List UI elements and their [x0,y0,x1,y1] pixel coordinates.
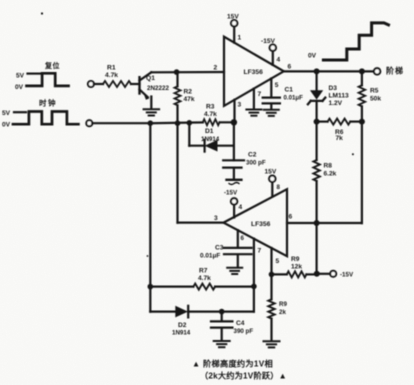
svg-text:R5: R5 [370,88,379,95]
svg-text:R8: R8 [324,163,333,170]
svg-text:4.7k: 4.7k [198,275,211,282]
svg-text:12k: 12k [291,264,302,271]
svg-text:4: 4 [239,204,243,211]
svg-text:2: 2 [214,65,218,72]
svg-text:5: 5 [275,82,279,89]
svg-text:LF356: LF356 [244,69,264,76]
svg-text:0.01μF: 0.01μF [200,253,220,260]
svg-text:4.7k: 4.7k [105,72,118,79]
svg-text:15V: 15V [265,169,277,176]
svg-text:3: 3 [214,215,218,222]
svg-text:-15V: -15V [224,190,238,197]
svg-text:0V: 0V [2,122,11,129]
svg-text:7: 7 [258,248,262,255]
svg-text:4.7k: 4.7k [204,111,217,118]
svg-text:C3: C3 [215,245,224,252]
svg-text:（2k大约为1V阶跃）▲: （2k大约为1V阶跃）▲ [200,371,287,381]
svg-text:R1: R1 [107,65,116,72]
svg-text:1: 1 [238,35,242,42]
svg-text:8: 8 [277,184,281,191]
svg-text:7k: 7k [336,135,344,142]
svg-text:R2: R2 [184,89,193,96]
svg-text:-15V: -15V [261,38,276,45]
svg-text:0V: 0V [308,53,317,60]
svg-text:D1: D1 [205,128,214,135]
svg-text:50k: 50k [370,96,381,103]
svg-text:1.2V: 1.2V [329,100,343,107]
svg-text:5V: 5V [16,73,25,80]
svg-text:C1: C1 [285,87,294,94]
svg-text:C2: C2 [248,152,257,159]
svg-text:2N2222: 2N2222 [147,85,170,92]
svg-text:4: 4 [277,57,281,64]
svg-text:6: 6 [288,64,292,71]
svg-text:1N914: 1N914 [172,330,191,337]
svg-text:C4: C4 [236,320,245,327]
svg-text:2k: 2k [279,309,286,316]
svg-text:0V: 0V [15,84,24,91]
svg-text:6: 6 [289,214,293,221]
svg-text:Q1: Q1 [146,75,155,82]
svg-text:3: 3 [238,102,242,109]
svg-text:47k: 47k [184,96,195,103]
svg-text:D3: D3 [329,85,338,92]
svg-text:5V: 5V [2,110,11,117]
svg-text:5: 5 [276,258,280,265]
svg-text:300 pF: 300 pF [246,160,266,167]
svg-text:-15V: -15V [340,272,354,279]
svg-text:390 pF: 390 pF [234,328,254,335]
svg-text:R9: R9 [291,256,300,263]
svg-text:时钟: 时钟 [39,98,57,108]
svg-text:6: 6 [241,235,245,242]
svg-text:0.01μF: 0.01μF [284,95,304,102]
svg-text:阶梯: 阶梯 [386,66,404,76]
svg-text:7: 7 [258,91,262,98]
svg-text:15V: 15V [227,14,239,21]
svg-text:R3: R3 [206,104,215,111]
svg-text:6.2k: 6.2k [324,171,337,178]
svg-text:R9: R9 [279,301,287,308]
svg-text:▲ 阶梯高度约为1V相: ▲ 阶梯高度约为1V相 [192,359,273,369]
svg-text:1N914: 1N914 [201,136,220,143]
svg-text:复位: 复位 [44,61,60,70]
svg-text:R7: R7 [199,268,208,275]
svg-text:D2: D2 [178,322,187,329]
svg-text:LM113: LM113 [329,93,349,100]
svg-text:LF356: LF356 [251,221,271,228]
